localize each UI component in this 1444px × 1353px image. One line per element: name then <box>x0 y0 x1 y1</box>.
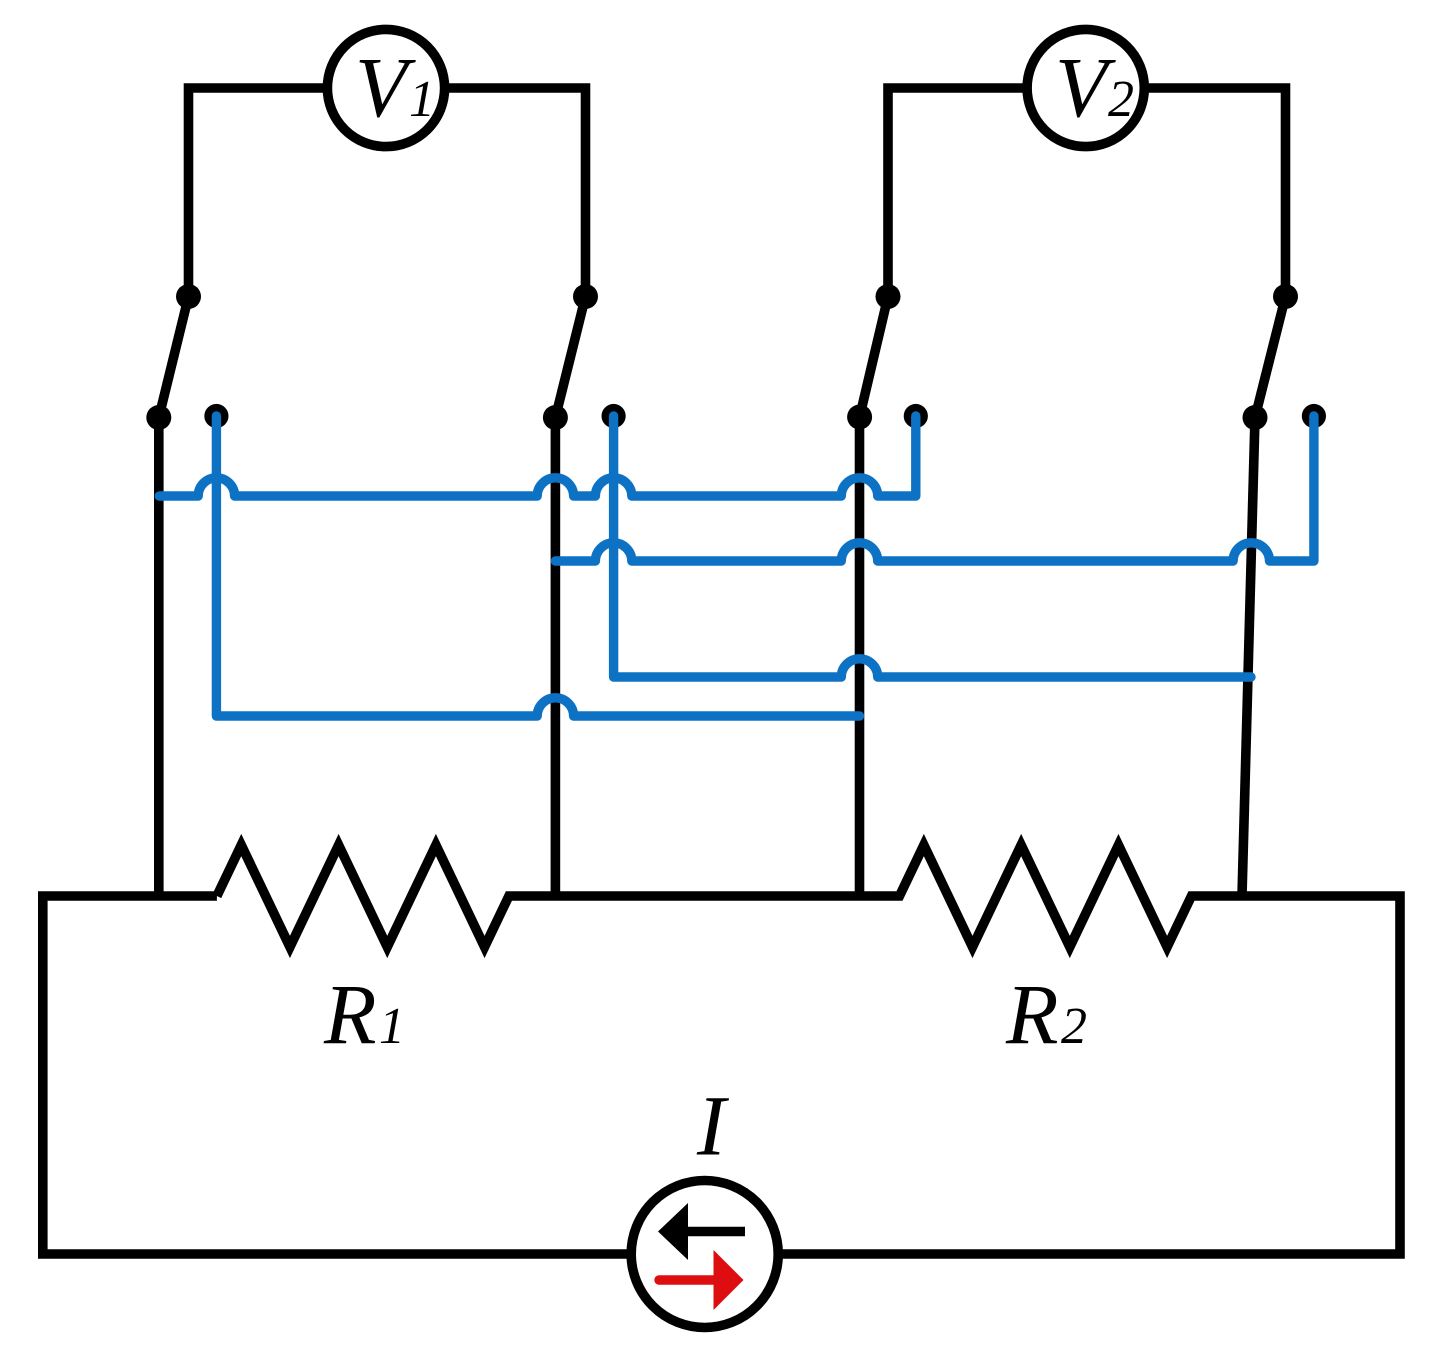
wire S4 throw to rail (slightly diagonal) <box>1242 418 1255 897</box>
switch S3 blade <box>860 297 888 418</box>
wire S2 throw to rail <box>551 418 561 897</box>
svg-text:V: V <box>1055 39 1116 135</box>
switch S1 pivot dot <box>176 284 201 309</box>
wire V2 top-right lead <box>1145 88 1286 297</box>
switch S2 blade <box>555 297 585 418</box>
terminal dot T4 (open throw of S4) <box>1302 404 1326 428</box>
svg-text:R: R <box>1005 966 1059 1062</box>
switch S3 pivot dot <box>876 284 901 309</box>
svg-text:2: 2 <box>1061 998 1087 1055</box>
switch S1 throw dot <box>146 405 171 430</box>
svg-text:1: 1 <box>379 998 405 1055</box>
svg-text:I: I <box>696 1078 729 1174</box>
blue sense wire B with hops <box>555 416 1314 561</box>
blue sense wire C with hop <box>614 416 1251 677</box>
svg-text:2: 2 <box>1108 71 1134 128</box>
label R2 <box>1005 966 1087 1062</box>
terminal dot T2 (open throw of S2) <box>602 404 626 428</box>
voltmeter V1 <box>327 29 444 146</box>
wire V2 top-left lead <box>888 88 1027 297</box>
terminal dot T1 (open throw of S1) <box>204 404 228 428</box>
svg-text:1: 1 <box>409 71 435 128</box>
voltmeter V2 <box>1027 29 1144 146</box>
resistor R1 and resistor R2 on top rail <box>43 845 1400 1254</box>
svg-text:V: V <box>355 39 416 135</box>
switch S4 throw dot <box>1243 405 1268 430</box>
switch S2 throw dot <box>543 405 568 430</box>
label I <box>696 1078 729 1174</box>
blue sense wire A with hops <box>159 416 916 496</box>
switch S2 pivot dot <box>573 284 598 309</box>
switch S3 throw dot <box>847 405 872 430</box>
wire V1 top-left lead <box>189 88 328 297</box>
switch S4 blade <box>1255 297 1286 418</box>
blue sense wire D with hop <box>216 416 859 716</box>
switch S4 pivot dot <box>1273 284 1298 309</box>
switch S1 blade <box>159 297 189 418</box>
current source I <box>631 1181 778 1328</box>
wire S3 throw to rail <box>855 417 865 896</box>
terminal dot T3 (open throw of S3) <box>904 404 928 428</box>
label R1 <box>323 966 405 1062</box>
wire V1 top-right lead <box>445 88 586 297</box>
wire S1 throw to rail <box>154 418 164 897</box>
svg-text:R: R <box>323 966 377 1062</box>
